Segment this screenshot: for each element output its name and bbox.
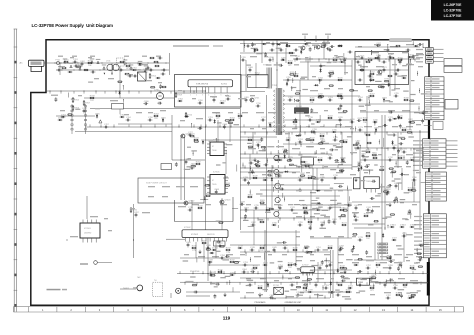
wire [421, 181, 431, 183]
node [369, 97, 370, 98]
wire [299, 80, 301, 135]
capacitor C890 [309, 47, 312, 52]
wire [240, 171, 300, 173]
resistor R832 [218, 222, 223, 224]
diode D725 [96, 114, 98, 119]
value label [406, 126, 413, 127]
value label [307, 146, 314, 147]
value label [416, 54, 424, 55]
value label [278, 261, 283, 262]
resistor R836 [359, 69, 364, 71]
capacitor C730 [328, 155, 334, 159]
resistor R701 [63, 59, 69, 62]
capacitor C705 [82, 108, 88, 113]
capacitor C871 [382, 61, 387, 64]
small box left rail [161, 164, 172, 170]
wire stub [355, 148, 357, 151]
value label [345, 298, 352, 299]
value label [352, 236, 356, 237]
wire [317, 262, 319, 282]
capacitor C789 [190, 165, 196, 169]
capacitor C815 [251, 42, 254, 47]
value label [142, 64, 148, 65]
value label [400, 199, 406, 200]
value label [301, 77, 308, 78]
value label [192, 204, 199, 205]
capacitor C816 [387, 48, 390, 53]
wire stub [399, 271, 401, 274]
part above right border [418, 43, 423, 46]
capacitor C872 [399, 60, 402, 65]
capacitor C801 [332, 219, 338, 223]
wire stub [254, 282, 256, 285]
connector CN7802 table [425, 77, 444, 120]
wire wire x=385 [384, 115, 386, 230]
capacitor C811 [161, 73, 166, 76]
node [378, 56, 379, 57]
value label [394, 88, 400, 89]
value label [225, 276, 231, 277]
photocoupler PC701 [295, 106, 309, 113]
value label [223, 259, 230, 260]
capacitor C708 [226, 96, 232, 100]
capacitor C750 [283, 245, 289, 249]
wire stub [376, 148, 378, 151]
diode arrow D716 [123, 59, 128, 64]
capacitor C839 [240, 201, 246, 205]
wire wire x=181 [180, 135, 182, 200]
resistor R726 [317, 157, 323, 164]
wire [240, 43, 330, 45]
svg-text:4: 4 [208, 95, 209, 97]
node [419, 108, 420, 109]
resistor R806 [343, 208, 349, 211]
resistor R848 [378, 86, 383, 88]
diode D727 [392, 239, 397, 241]
svg-text:7805: 7805 [366, 181, 372, 183]
capacitor C835 [357, 162, 363, 167]
node [123, 85, 124, 86]
resistor R752 [369, 71, 375, 74]
value label [383, 100, 390, 101]
value label [383, 267, 389, 268]
resistor R790 [384, 79, 390, 82]
border crossing stub [304, 36, 306, 43]
capacitor C906 [244, 214, 247, 219]
value label [104, 218, 108, 219]
capacitor C908 [279, 188, 284, 191]
diode D763 [410, 296, 415, 298]
resistor R711 [215, 113, 221, 120]
value label [338, 254, 344, 255]
value label [402, 75, 408, 76]
value label [180, 120, 185, 121]
capacitor C844 [353, 213, 359, 218]
value label [312, 157, 318, 158]
value label [320, 174, 324, 175]
wire stub [230, 124, 232, 127]
value label [262, 128, 266, 129]
wire stub [193, 91, 195, 94]
capacitor C892 [310, 108, 313, 113]
wire stub [309, 165, 311, 168]
transistor Q7602 [183, 201, 195, 205]
svg-text:IC7601: IC7601 [84, 228, 92, 230]
capacitor C802 [251, 222, 257, 226]
wire stub [244, 151, 246, 154]
resistor R731 [130, 207, 138, 213]
diode arrow D714 [96, 59, 101, 64]
value label [305, 115, 310, 116]
resistor R855 [391, 171, 396, 173]
junction [381, 147, 382, 148]
wire [414, 179, 416, 186]
wire [391, 171, 393, 178]
wire [221, 198, 223, 230]
bulk capacitor C715 [154, 90, 164, 100]
wire [360, 111, 428, 113]
resistor R786 [329, 71, 335, 74]
pin label P2 [416, 53, 423, 54]
value label [338, 262, 343, 263]
capacitor C895 [340, 95, 343, 100]
resistor R862 [411, 294, 416, 296]
value label [330, 169, 336, 170]
capacitor C739 [254, 205, 260, 209]
wire stub [354, 59, 356, 62]
capacitor C761 [290, 282, 296, 286]
junction [66, 239, 67, 240]
value label [366, 212, 372, 213]
wire [232, 207, 238, 209]
value label [301, 282, 308, 283]
resistor R756 [365, 233, 371, 240]
capacitor C804 [242, 269, 248, 273]
wire rail y=190 [260, 189, 352, 191]
node [250, 259, 251, 260]
node [340, 125, 341, 126]
value label [413, 170, 419, 171]
capacitor C905 [406, 160, 409, 165]
value label [374, 110, 379, 111]
value label [78, 95, 82, 96]
svg-text:TH701: TH701 [123, 288, 130, 290]
node [209, 263, 210, 264]
capacitor C856 [215, 283, 220, 286]
wire [249, 154, 251, 180]
resistor R825 [117, 81, 122, 83]
capacitor C848 [250, 269, 256, 273]
value label [324, 88, 330, 89]
value label [222, 162, 226, 163]
value label [406, 64, 414, 65]
value label [190, 276, 196, 277]
wire [307, 272, 309, 287]
wire stub [324, 282, 326, 285]
diode D719 [238, 247, 243, 249]
value label [336, 124, 342, 125]
wire stub [226, 282, 228, 285]
value label [319, 295, 324, 296]
wire wire to IC7601 x=87 [86, 196, 88, 219]
value label [292, 165, 298, 166]
wire stub [223, 271, 225, 274]
value label [262, 149, 267, 150]
value label [388, 110, 395, 111]
value label [124, 114, 129, 115]
wire [229, 120, 231, 142]
diode arrow D713 [90, 58, 95, 63]
resistor R769 [293, 73, 299, 76]
wire stub [150, 91, 152, 94]
wire primary bus y=91 [46, 90, 205, 92]
resistor R748 [337, 282, 343, 285]
value label [412, 188, 416, 189]
IC small regulator [354, 178, 361, 189]
diode D765 [353, 245, 355, 250]
diode D773 [414, 45, 419, 47]
capacitor C865 [159, 84, 162, 89]
resistor R741 [252, 265, 258, 268]
value label [288, 204, 293, 205]
wire stub [378, 59, 380, 62]
wire stub [257, 218, 259, 221]
resistor R709 [175, 92, 183, 98]
junction [205, 126, 206, 127]
capacitor C841 [247, 181, 250, 186]
resistor R755 [365, 149, 371, 152]
capacitor C860 [389, 260, 394, 263]
wire wire x=244 [243, 40, 245, 52]
value label [360, 110, 366, 111]
resistor R789 [343, 111, 348, 113]
wire rail y=148 [354, 147, 428, 149]
value label [386, 100, 390, 101]
capacitor C763 [324, 285, 330, 289]
value label [183, 260, 189, 261]
capacitor C823 [397, 115, 400, 120]
wire [316, 168, 318, 190]
wire [371, 280, 379, 282]
resistor R761 [395, 292, 401, 295]
value label [324, 110, 328, 111]
svg-text:RY DRIVE: RY DRIVE [190, 271, 200, 273]
value label [216, 221, 221, 222]
wire [369, 70, 371, 77]
capacitor C828 [256, 160, 261, 163]
diode D753 [358, 167, 360, 172]
box on border right [433, 122, 443, 130]
wire long rail y=127 [85, 126, 352, 128]
svg-text:10k: 10k [88, 65, 91, 67]
value label [402, 110, 410, 111]
svg-text:IC7602: IC7602 [191, 234, 199, 236]
wire stub [257, 165, 259, 168]
wire wire x=265 [264, 230, 266, 292]
capacitor C818 [399, 124, 402, 129]
resistor R742 [287, 262, 293, 269]
capacitor C799 [298, 222, 304, 226]
node [360, 145, 361, 146]
value label [390, 46, 398, 47]
node [369, 102, 370, 103]
value label [402, 65, 407, 66]
value label [148, 112, 153, 113]
wire rail y=140 [205, 139, 262, 141]
value label [312, 45, 319, 46]
value label [368, 224, 374, 225]
value label [110, 100, 118, 101]
value label [312, 208, 319, 209]
wire stub [193, 124, 195, 127]
value label [72, 56, 77, 57]
capacitor C826 [283, 149, 288, 152]
capacitor C866 [143, 101, 149, 105]
node [264, 148, 265, 149]
wire wire x=184.7 [184, 135, 186, 200]
capacitor C759 [398, 262, 404, 266]
wire [300, 291, 352, 293]
svg-text:119: 119 [223, 315, 231, 320]
value label [307, 251, 314, 252]
resistor R853 [389, 168, 394, 170]
main transformer T701 [272, 85, 284, 135]
node [301, 144, 302, 145]
diode D774 [138, 63, 143, 65]
value label [277, 153, 284, 154]
capacitor C728 [249, 160, 255, 164]
value label [324, 216, 330, 217]
value label [343, 58, 347, 59]
capacitor C806 [74, 65, 79, 68]
ground [389, 203, 392, 207]
value label [354, 56, 360, 57]
capacitor C752 [338, 247, 344, 252]
value label [310, 112, 318, 113]
value label [388, 134, 395, 135]
value label [258, 219, 264, 220]
wire stub [254, 132, 256, 135]
node [273, 59, 274, 60]
capacitor C770 [360, 67, 366, 71]
wire stub [284, 165, 286, 168]
value label [410, 280, 418, 281]
net label M6 [414, 236, 422, 237]
value label [343, 277, 349, 278]
value label [220, 204, 227, 205]
value label [336, 57, 340, 58]
wire [334, 190, 336, 225]
capacitor C834 [397, 148, 403, 153]
diode D775 [156, 77, 161, 79]
wire [337, 238, 339, 273]
rectifier diode D7802 [400, 226, 405, 228]
value label [278, 266, 283, 267]
resistor R840 [285, 45, 290, 47]
value label [366, 256, 372, 257]
capacitor C915 [303, 283, 308, 286]
capacitor C781 [394, 183, 400, 188]
net label M5 [414, 232, 422, 233]
resistor R794 [306, 139, 311, 141]
value label [184, 169, 191, 170]
node [267, 160, 268, 161]
wire stub [312, 271, 314, 274]
value label [305, 57, 309, 58]
value label [243, 220, 249, 221]
diode D748 [286, 81, 288, 86]
junction [386, 59, 387, 60]
resistor R721 [247, 137, 253, 140]
zener ZD701 [220, 102, 225, 104]
diode D731 [162, 118, 164, 123]
resistor R865 [194, 141, 199, 143]
resistor R729 [252, 175, 258, 178]
resistor R822 [191, 164, 197, 167]
value label [366, 86, 370, 87]
wire wire x=313 [312, 168, 314, 190]
capacitor C838 [309, 225, 312, 230]
wire [68, 93, 70, 98]
resistor R791 [410, 122, 415, 124]
value label [226, 144, 233, 145]
wire [225, 155, 227, 174]
wire [313, 164, 352, 166]
value label [267, 146, 274, 147]
wire stub [274, 249, 276, 252]
value label [420, 282, 427, 283]
value label [248, 148, 256, 149]
svg-text:STR-W6756: STR-W6756 [196, 84, 209, 86]
junction [351, 131, 352, 132]
resistor R780 [149, 57, 154, 59]
wire [348, 196, 350, 201]
value label [356, 292, 360, 293]
wire stub [394, 282, 396, 285]
wire [374, 232, 376, 260]
secondary winding W3 [275, 183, 281, 189]
diode D760 [337, 268, 339, 273]
terminal box CN output A [444, 59, 462, 66]
value label [270, 262, 275, 263]
wire [389, 59, 391, 96]
value label [276, 48, 282, 49]
wire [240, 251, 330, 253]
capacitor C736 [333, 175, 339, 179]
value label [340, 291, 344, 292]
wire [240, 52, 295, 54]
wire feedback bus y=239.2 [166, 238, 185, 240]
value label [386, 204, 390, 205]
value label [359, 180, 365, 181]
connector CN7801 pins [426, 48, 444, 64]
resistor R850 [305, 139, 310, 141]
diode D767 [184, 115, 189, 117]
wire stub [83, 91, 85, 94]
wire [413, 148, 415, 202]
node [314, 47, 315, 48]
node [294, 99, 295, 100]
diode D710 [373, 121, 378, 123]
wire stub [366, 282, 368, 285]
capacitor C723 [256, 142, 262, 146]
net label M7 [414, 241, 422, 242]
wire rail y=283 [375, 282, 428, 284]
capacitor C742 [328, 205, 334, 209]
resistor R717 [292, 119, 298, 126]
node [273, 187, 274, 188]
junction [121, 69, 124, 72]
